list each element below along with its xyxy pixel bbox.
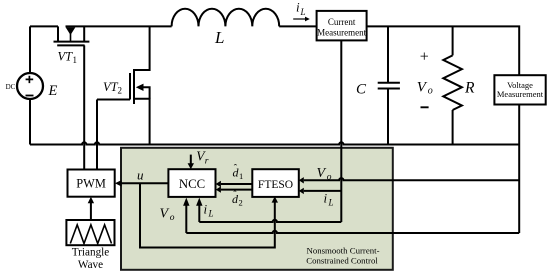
svg-text:E: E (48, 83, 58, 99)
wire: VT1 gate line down to PWM (83, 45, 85, 169)
svg-text:VT: VT (103, 80, 119, 94)
current measurement box (317, 11, 367, 41)
svg-text:VT: VT (58, 50, 74, 64)
svg-text:2: 2 (239, 198, 243, 208)
svg-text:o: o (428, 86, 433, 97)
source circle (17, 73, 43, 99)
wire: VT2 gate line down to PWM (96, 100, 98, 170)
svg-text:L: L (328, 198, 334, 208)
svg-text:C: C (356, 82, 367, 98)
plus polarity mark (26, 76, 34, 83)
wire: bottom rail with hops over gate lines and iL line (30, 142, 519, 144)
wire: current measurement to top-right corner and down to voltage measurement (367, 26, 520, 75)
svg-text:V: V (160, 207, 170, 222)
svg-text:FTESO: FTESO (258, 179, 293, 191)
signal d1hat: FTESO to NCC (216, 164, 253, 188)
signal Vo into NCC bottom (160, 198, 520, 233)
reference input Vr into NCC top (188, 149, 209, 170)
wire: triangle wave to PWM with up arrow (88, 197, 94, 220)
signal iL sense: from current measurement down, into FTESO and NCC (196, 40, 341, 222)
svg-text:Constrained Control: Constrained Control (306, 256, 378, 266)
transistor VT1 (54, 26, 90, 65)
svg-text:L: L (208, 209, 214, 219)
green shaded region: Nonsmooth Current-Constrained Control (121, 148, 393, 270)
svg-text:DC: DC (6, 83, 16, 91)
current arrow annotation iL (293, 0, 310, 21)
svg-text:i: i (324, 191, 328, 206)
svg-text:Triangle: Triangle (72, 247, 110, 259)
signal d2hat: FTESO to NCC (216, 186, 253, 207)
caption: Nonsmooth Current-Constrained Control (306, 246, 379, 266)
wire: inductor to current measurement (279, 25, 316, 27)
wire: left branch from top rail to source (29, 26, 31, 73)
svg-text:2: 2 (118, 86, 123, 96)
svg-text:Nonsmooth Current-: Nonsmooth Current- (306, 246, 379, 256)
transistor VT2 (97, 26, 150, 144)
wire: voltage measurement output vertical (518, 105, 520, 234)
svg-text:i: i (296, 0, 300, 15)
svg-text:L: L (300, 7, 306, 17)
fteso box (252, 169, 298, 197)
capacitor C (356, 26, 400, 144)
triangle wave generator box (66, 220, 114, 271)
voltage measurement box (494, 75, 545, 104)
svg-text:V: V (317, 166, 327, 181)
svg-text:Current: Current (328, 17, 356, 27)
svg-text:u: u (137, 168, 144, 183)
signal u feedback: branch down to FTESO bottom input (140, 183, 278, 247)
svg-text:NCC: NCC (179, 177, 205, 191)
wire: top rail left segment (30, 25, 58, 27)
load resistor R (443, 26, 475, 144)
pwm box (68, 170, 115, 197)
svg-text:Measurement: Measurement (497, 89, 544, 99)
minus polarity mark (26, 95, 34, 97)
signal Vo into FTESO right side (299, 166, 519, 184)
svg-text:r: r (205, 157, 209, 167)
wire: source bottom to bottom rail (29, 99, 31, 145)
svg-text:o: o (170, 213, 175, 223)
wire: top rail from VT1 to inductor (66, 25, 172, 27)
dc source E (6, 73, 58, 99)
output voltage labels + Vo - (417, 49, 433, 108)
signal u: NCC output to PWM (115, 168, 168, 187)
ncc box (168, 169, 215, 197)
svg-text:1: 1 (73, 55, 78, 65)
svg-text:PWM: PWM (76, 177, 106, 191)
svg-text:i: i (204, 202, 208, 217)
svg-text:L: L (214, 28, 224, 47)
svg-text:R: R (464, 80, 475, 97)
svg-text:Measurement: Measurement (317, 27, 366, 37)
inductor L (172, 9, 280, 47)
svg-text:1: 1 (239, 171, 243, 181)
svg-text:Wave: Wave (78, 259, 103, 271)
svg-text:o: o (327, 173, 332, 183)
svg-text:+: + (420, 49, 429, 66)
